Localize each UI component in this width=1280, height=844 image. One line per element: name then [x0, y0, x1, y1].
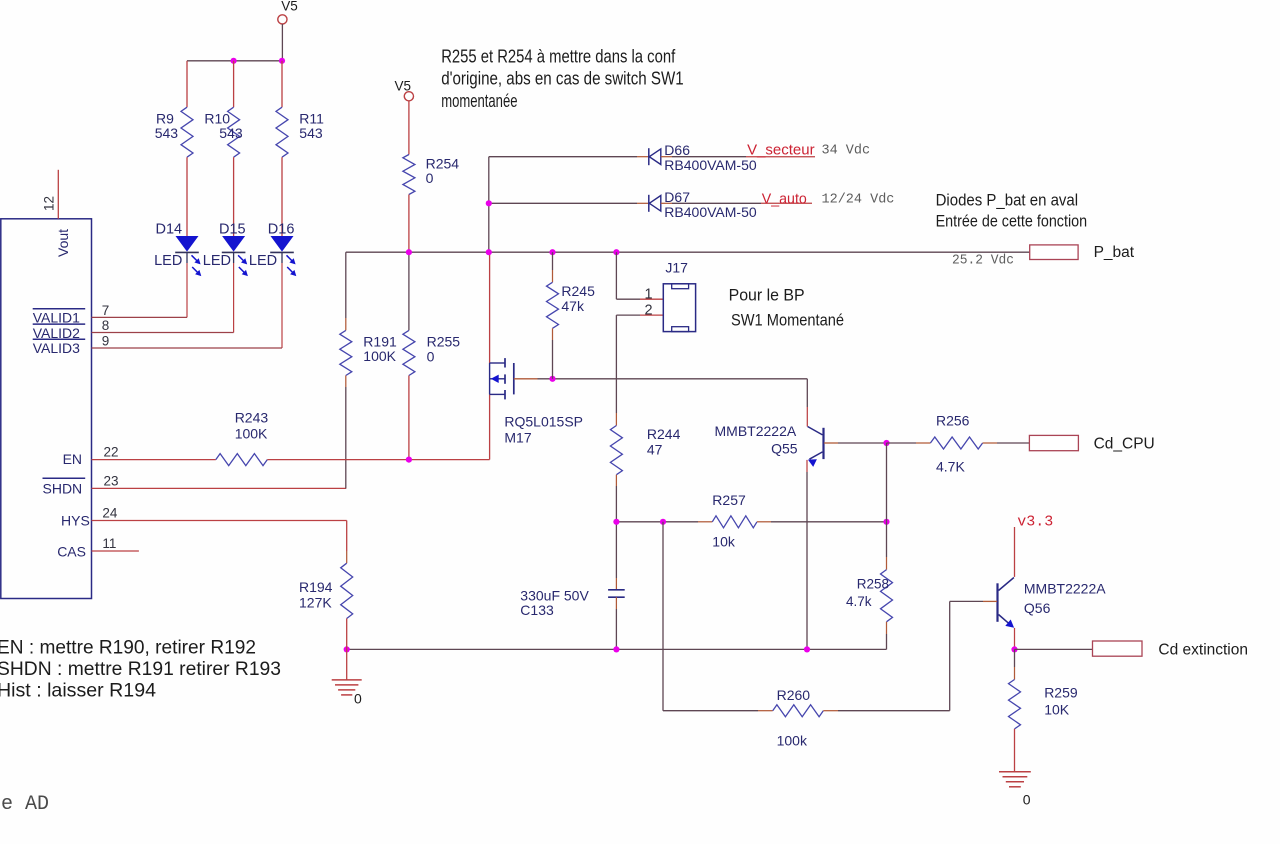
svg-text:C133: C133	[520, 602, 554, 618]
svg-text:momentanée: momentanée	[441, 91, 517, 111]
svg-text:M17: M17	[504, 430, 531, 446]
svg-text:RB400VAM-50: RB400VAM-50	[664, 157, 757, 173]
svg-text:MMBT2222A: MMBT2222A	[1024, 581, 1106, 597]
svg-text:4.7k: 4.7k	[846, 594, 872, 609]
svg-text:R255 et R254 à mettre dans la: R255 et R254 à mettre dans la conf	[441, 46, 676, 66]
svg-text:LED: LED	[154, 253, 182, 269]
svg-text:100K: 100K	[363, 348, 396, 364]
svg-text:Diodes P_bat en aval: Diodes P_bat en aval	[936, 192, 1079, 210]
svg-text:R245: R245	[561, 283, 595, 299]
svg-text:D15: D15	[219, 222, 246, 238]
svg-text:0: 0	[427, 349, 435, 365]
svg-text:D67: D67	[664, 189, 690, 205]
svg-text:SW1 Momentané: SW1 Momentané	[731, 312, 844, 330]
svg-text:R259: R259	[1044, 685, 1078, 701]
svg-text:P_bat: P_bat	[1094, 244, 1135, 261]
svg-text:2: 2	[645, 303, 653, 319]
svg-text:SHDN: SHDN	[43, 480, 83, 496]
svg-text:EN : mettre R190, retirer R192: EN : mettre R190, retirer R192	[0, 637, 256, 659]
svg-text:543: 543	[155, 125, 179, 141]
svg-text:Q56: Q56	[1024, 600, 1051, 616]
svg-text:V5: V5	[395, 79, 412, 94]
svg-text:543: 543	[299, 125, 323, 141]
svg-text:MMBT2222A: MMBT2222A	[715, 423, 797, 439]
svg-text:Cd_CPU: Cd_CPU	[1094, 436, 1155, 453]
svg-text:EN: EN	[63, 451, 82, 467]
svg-text:4.7K: 4.7K	[936, 459, 965, 475]
svg-text:R256: R256	[936, 413, 970, 429]
svg-text:34 Vdc: 34 Vdc	[822, 144, 871, 159]
svg-text:1: 1	[645, 287, 653, 303]
svg-text:R260: R260	[777, 687, 811, 703]
svg-text:RB400VAM-50: RB400VAM-50	[664, 204, 757, 220]
svg-text:V_secteur: V_secteur	[747, 142, 815, 159]
svg-text:D16: D16	[268, 222, 295, 238]
svg-text:V5: V5	[281, 0, 298, 14]
svg-text:100K: 100K	[235, 426, 268, 442]
svg-text:Pour le BP: Pour le BP	[729, 287, 805, 305]
svg-text:R194: R194	[299, 579, 333, 595]
svg-text:Hist : laisser R194: Hist : laisser R194	[0, 679, 156, 701]
svg-text:D14: D14	[156, 222, 183, 238]
svg-text:25.2 Vdc: 25.2 Vdc	[952, 254, 1014, 269]
svg-text:8: 8	[102, 318, 110, 333]
svg-text:LED: LED	[203, 253, 231, 269]
svg-text:SHDN : mettre R191 retirer R19: SHDN : mettre R191 retirer R193	[0, 658, 281, 680]
svg-text:7: 7	[102, 303, 110, 318]
svg-text:V_auto: V_auto	[762, 191, 807, 208]
svg-text:VALID2: VALID2	[33, 325, 80, 341]
svg-text:47k: 47k	[561, 298, 585, 314]
svg-text:LED: LED	[249, 253, 277, 269]
svg-text:Cd extinction: Cd extinction	[1158, 642, 1248, 659]
svg-text:R244: R244	[647, 426, 681, 442]
svg-text:23: 23	[104, 473, 119, 488]
svg-text:127K: 127K	[299, 595, 332, 611]
svg-text:10K: 10K	[1044, 702, 1070, 718]
svg-text:543: 543	[219, 125, 243, 141]
svg-text:CAS: CAS	[57, 544, 86, 560]
svg-text:0: 0	[1023, 792, 1031, 808]
svg-text:24: 24	[102, 505, 118, 520]
svg-text:HYS: HYS	[61, 512, 90, 528]
svg-text:10k: 10k	[712, 534, 736, 550]
svg-text:D66: D66	[664, 142, 690, 158]
svg-text:12/24 Vdc: 12/24 Vdc	[822, 193, 895, 208]
svg-text:Vout: Vout	[55, 229, 71, 257]
svg-text:0: 0	[354, 691, 362, 707]
svg-text:J17: J17	[665, 260, 688, 276]
svg-text:47: 47	[647, 442, 663, 458]
svg-text:v3.3: v3.3	[1017, 514, 1053, 531]
svg-text:R257: R257	[712, 492, 746, 508]
svg-text:R243: R243	[235, 410, 269, 426]
svg-text:0: 0	[426, 170, 434, 186]
svg-text:22: 22	[104, 445, 119, 460]
svg-text:VALID3: VALID3	[33, 340, 80, 356]
svg-text:11: 11	[102, 536, 116, 551]
svg-text:e AD: e AD	[1, 793, 49, 816]
svg-text:100k: 100k	[777, 733, 808, 749]
svg-text:Q55: Q55	[771, 441, 798, 457]
svg-text:R255: R255	[427, 334, 461, 350]
svg-text:RQ5L015SP: RQ5L015SP	[504, 414, 583, 430]
svg-text:12: 12	[42, 196, 57, 211]
svg-text:VALID1: VALID1	[33, 310, 80, 326]
svg-text:d'origine, abs en cas de switc: d'origine, abs en cas de switch SW1	[441, 69, 684, 89]
svg-text:9: 9	[102, 334, 110, 349]
svg-text:330uF 50V: 330uF 50V	[520, 588, 589, 604]
svg-text:R258: R258	[857, 577, 889, 592]
svg-text:Entrée de cette fonction: Entrée de cette fonction	[936, 213, 1088, 231]
